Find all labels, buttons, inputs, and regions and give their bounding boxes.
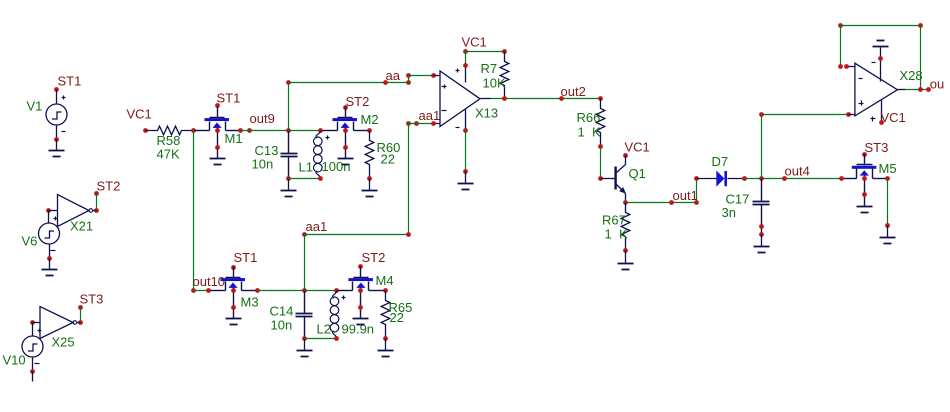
resistor R66 1K [577, 99, 605, 149]
capacitor C14 10n [270, 291, 313, 357]
svg-text:10n: 10n [271, 318, 293, 333]
svg-text:V6: V6 [22, 234, 38, 249]
svg-text:ST1: ST1 [234, 250, 258, 265]
wire from C13 junction up to aa rail [286, 80, 291, 130]
transistor M3 (NMOS), gate ST1 [211, 250, 259, 325]
svg-text:X21: X21 [70, 219, 93, 234]
transistor M4 (NMOS), gate ST2 [338, 250, 394, 325]
svg-text:M5: M5 [879, 161, 897, 176]
op-amp X28 [847, 59, 923, 123]
node aa [383, 68, 401, 85]
svg-text:M2: M2 [361, 112, 379, 127]
svg-text:X25: X25 [52, 335, 75, 350]
wire M3 to M4 [258, 290, 338, 292]
svg-text:100n: 100n [322, 159, 351, 174]
svg-text:ST2: ST2 [97, 179, 121, 194]
svg-text:R66: R66 [577, 110, 601, 125]
wire out1 [626, 202, 697, 204]
svg-text:aa1: aa1 [306, 219, 328, 234]
svg-text:10n: 10n [252, 157, 274, 172]
node VC1 at X13 supply [462, 35, 487, 68]
buffer X25 with voltage source V10, terminal ST3 [3, 292, 104, 382]
svg-text:1 K: 1 K [578, 125, 601, 140]
junction at C17 top [759, 176, 764, 181]
wire R66 to Q1 base [598, 147, 603, 181]
node out1 [669, 188, 699, 205]
svg-text:VC1: VC1 [462, 35, 487, 50]
svg-text:VC1: VC1 [625, 140, 650, 155]
junction below R58 [191, 128, 196, 133]
voltage source V1 with terminal ST1 [27, 74, 82, 157]
resistor R67 1K [602, 203, 634, 270]
transistor M1 (NMOS), gate ST1 [195, 91, 243, 165]
wire out9 to M2 [241, 130, 323, 132]
svg-text:M3: M3 [241, 295, 259, 310]
inductor L2 99.9n [317, 288, 375, 341]
svg-text:10K: 10K [483, 76, 506, 91]
svg-text:M4: M4 [376, 273, 394, 288]
svg-text:ST2: ST2 [362, 250, 386, 265]
inductor L1 100n [299, 128, 351, 181]
wire X13 output to out2 [491, 96, 601, 101]
transistor Q1 (NPN) [601, 140, 650, 203]
ground at X28 negative supply [873, 41, 889, 61]
svg-text:out9: out9 [250, 111, 275, 126]
node at M5 left lead [839, 176, 844, 181]
wire aa jog up to op-amp + input [406, 73, 436, 85]
svg-text:aa: aa [386, 68, 401, 83]
svg-text:aa1: aa1 [419, 108, 441, 123]
transistor M5 (NMOS), gate ST3 [842, 140, 897, 213]
resistor R60 22 [362, 128, 401, 196]
svg-text:22: 22 [381, 152, 395, 167]
wire aa rail horizontal [289, 82, 409, 84]
svg-text:ST2: ST2 [346, 94, 370, 109]
svg-text:X28: X28 [900, 68, 923, 83]
node VC1 at X28 positive supply [879, 110, 906, 125]
svg-text:R7: R7 [481, 61, 498, 76]
svg-text:3n: 3n [722, 205, 736, 220]
svg-text:ST3: ST3 [865, 140, 889, 155]
svg-text:out4: out4 [785, 164, 810, 179]
X28 feedback wire [838, 23, 923, 89]
node out at X28 output [906, 77, 945, 92]
wire aa1 horizontal segment [302, 219, 411, 237]
transistor M2 (NMOS), gate ST2 [323, 94, 379, 165]
svg-text:X13: X13 [475, 106, 498, 121]
node at M3 right lead [255, 288, 260, 293]
svg-text:out1: out1 [673, 188, 698, 203]
X13 negative supply to ground [458, 128, 474, 189]
junction at C14 top [302, 288, 307, 293]
wire out1 up to diode [694, 176, 699, 202]
svg-text:ST1: ST1 [217, 91, 241, 106]
svg-text:out2: out2 [561, 84, 586, 99]
svg-text:R67: R67 [602, 213, 626, 228]
wire from R58 junction down to out10 [193, 131, 195, 291]
wire X28 plus input from out4 [759, 112, 851, 178]
svg-text:V10: V10 [3, 353, 26, 368]
svg-text:22: 22 [390, 310, 404, 325]
svg-text:V1: V1 [27, 99, 43, 114]
wire aa1 down [408, 124, 410, 235]
svg-text:M1: M1 [225, 131, 243, 146]
wire VC1 rail to R7 [466, 49, 507, 54]
svg-text:D7: D7 [712, 154, 729, 169]
svg-text:47K: 47K [157, 147, 180, 162]
wire C14 bottom to L2 bottom [305, 338, 337, 340]
capacitor C13 10n [252, 131, 298, 197]
op-amp X13 [434, 66, 499, 131]
svg-text:ST1: ST1 [58, 74, 82, 89]
svg-text:L1: L1 [299, 160, 313, 175]
node out9 [238, 111, 275, 133]
svg-text:1 K: 1 K [605, 227, 628, 242]
junction at C13 top [286, 128, 291, 133]
svg-text:Q1: Q1 [629, 166, 646, 181]
node VC1 terminal (left) [127, 107, 152, 133]
wire aa1 down to C14 junction [304, 235, 306, 291]
node aa1 at op-amp minus input [406, 108, 440, 126]
resistor R65 22 [378, 288, 413, 356]
svg-text:C14: C14 [270, 304, 294, 319]
wire C13 bottom to L1 bottom [289, 178, 321, 180]
svg-text:out10: out10 [193, 274, 226, 289]
resistor R7 10K [481, 52, 509, 99]
svg-text:ST3: ST3 [80, 292, 104, 307]
svg-text:VC1: VC1 [127, 107, 152, 122]
wire out4 line [745, 178, 842, 180]
wire M5 drain to ground [880, 176, 896, 243]
resistor R58 47K [146, 126, 194, 161]
node at Q1 emitter [623, 200, 628, 205]
node out4 [782, 164, 810, 181]
diode D7 [697, 154, 747, 187]
node out2 [559, 84, 603, 101]
svg-text:ou: ou [930, 77, 944, 92]
capacitor C17 3n [722, 179, 770, 253]
node out10 [191, 274, 225, 293]
svg-text:L2: L2 [317, 322, 331, 337]
svg-text:VC1: VC1 [881, 110, 906, 125]
buffer X21 with voltage source V6, terminal ST2 [22, 179, 121, 276]
